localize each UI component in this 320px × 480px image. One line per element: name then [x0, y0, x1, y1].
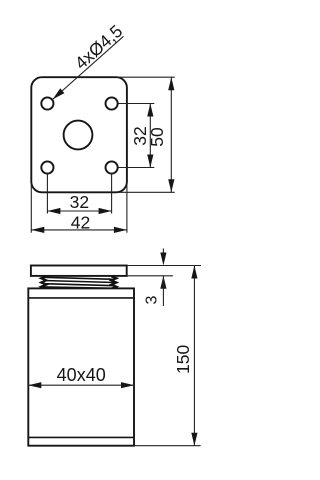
extension line below plate right edge — [126, 183, 128, 233]
screw hole bottom-right — [106, 161, 118, 173]
threaded stem right zigzag — [111, 276, 116, 288]
top mounting plate (front view) — [31, 266, 127, 276]
arrow 32v bottom — [147, 155, 153, 168]
svg-text:50: 50 — [147, 127, 167, 147]
arrow 32h right — [99, 208, 112, 214]
dimension line 40x40 — [28, 384, 134, 386]
dimension line 50 vertical — [170, 77, 172, 192]
dim 3 lower stub — [162, 276, 164, 306]
thread helix line 2 — [44, 281, 115, 283]
svg-text:3: 3 — [143, 295, 160, 304]
arrow 32h left — [47, 208, 60, 214]
body top collar line — [28, 297, 134, 299]
thread helix line 4 — [44, 287, 115, 288]
extension line below plate left edge — [30, 183, 32, 233]
arrow 50 bottom — [168, 179, 174, 192]
central bore circle — [64, 121, 93, 150]
dimension line 42 — [31, 229, 127, 231]
leg body (front view) — [28, 288, 134, 445]
screw hole top-left — [41, 97, 53, 109]
dimension line 32 horizontal — [47, 210, 111, 212]
svg-text:150: 150 — [173, 345, 193, 374]
extension line plate top to 50 dim — [116, 76, 175, 78]
arrow 3 top (pointing down) — [160, 253, 166, 266]
body bottom foot line — [28, 436, 134, 438]
leader line for hole callout — [53, 36, 124, 99]
extension line right of bottom-right hole — [118, 167, 154, 169]
svg-text:40x40: 40x40 — [57, 365, 106, 385]
dimension line 150 — [193, 266, 195, 446]
arrow 150 bottom — [191, 433, 197, 446]
arrow 150 top — [191, 266, 197, 279]
leader arrowhead — [53, 88, 65, 99]
arrow 40x40 right — [121, 382, 134, 388]
dim 3 upper stub — [162, 249, 164, 254]
extension line plate top right (3 and 150) — [127, 265, 201, 267]
svg-text:42: 42 — [71, 213, 90, 233]
arrow 50 top — [168, 77, 174, 90]
thread helix line 3 — [44, 284, 115, 286]
svg-text:32: 32 — [70, 192, 89, 212]
threaded stem left zigzag — [41, 276, 46, 288]
extension line plate bottom to 50 dim — [116, 191, 175, 193]
arrow 32v top — [147, 104, 153, 117]
extension line below bottom-left hole — [46, 174, 48, 214]
dimension line 32 vertical — [149, 104, 151, 168]
screw hole top-right — [106, 97, 118, 109]
extension line right of top-right hole — [118, 103, 154, 105]
arrow 42 right — [114, 227, 127, 233]
screw hole bottom-left — [41, 161, 53, 173]
arrow 40x40 left — [28, 382, 41, 388]
extension line plate bottom right (3) — [127, 275, 173, 277]
thread helix line 1 — [44, 277, 115, 279]
mounting plate outline (top view) — [31, 77, 127, 192]
extension line body bottom right (150) — [134, 445, 201, 447]
arrow 42 left — [31, 227, 44, 233]
arrow 3 bottom (pointing up) — [160, 276, 166, 289]
extension line below bottom-right hole — [111, 174, 113, 214]
